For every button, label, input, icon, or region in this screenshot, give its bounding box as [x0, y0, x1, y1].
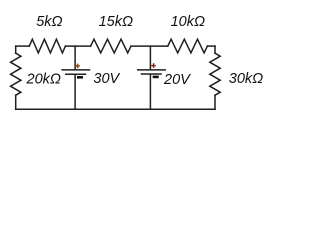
svg-text:5kΩ: 5kΩ — [36, 14, 62, 30]
svg-text:20kΩ: 20kΩ — [26, 72, 61, 88]
resistor R3 10kΩ (top right zigzag) — [168, 39, 208, 53]
battery V1 30V: top lead wire — [74, 46, 76, 69]
battery V2 minus sign — [153, 76, 159, 79]
battery V1 30V: negative plate (short) — [66, 73, 86, 75]
battery V2 20V: bottom lead wire — [149, 74, 151, 109]
wire right branch lower — [214, 95, 216, 109]
wire top-left segment — [16, 45, 30, 47]
svg-text:20V: 20V — [163, 72, 191, 88]
resistor R2 15kΩ (top middle zigzag) — [91, 39, 131, 53]
resistor R1 5kΩ (top left zigzag) — [29, 39, 65, 53]
battery V1 minus sign — [77, 76, 83, 79]
battery V1 plus sign — [75, 64, 80, 69]
wire between R1 and R2 (node A with 30V branch tap at x=74.8) — [65, 45, 90, 47]
battery V1 30V: bottom lead wire — [74, 74, 76, 109]
svg-text:15kΩ: 15kΩ — [99, 14, 133, 30]
wire between R2 and R3 (node B with 20V branch tap at x=150.4) — [131, 45, 168, 47]
battery V1 30V: positive plate (long) — [62, 69, 89, 71]
svg-text:30kΩ: 30kΩ — [229, 71, 263, 87]
wire left branch upper — [15, 46, 17, 53]
resistor R4 20kΩ (left vertical zigzag) — [11, 53, 21, 95]
svg-text:10kΩ: 10kΩ — [171, 14, 205, 30]
wire right branch upper — [214, 46, 216, 53]
battery V2 20V: negative plate (short) — [142, 73, 162, 75]
battery V2 plus sign — [151, 63, 156, 68]
wire top-right segment to corner — [207, 45, 215, 47]
svg-text:30V: 30V — [93, 71, 120, 87]
battery V2 20V: top lead wire — [149, 46, 151, 69]
wire bottom rail — [16, 108, 215, 110]
battery V2 20V: positive plate (long) — [138, 69, 166, 71]
wire left branch lower — [15, 95, 17, 109]
resistor R5 30kΩ (right vertical zigzag) — [210, 53, 220, 95]
